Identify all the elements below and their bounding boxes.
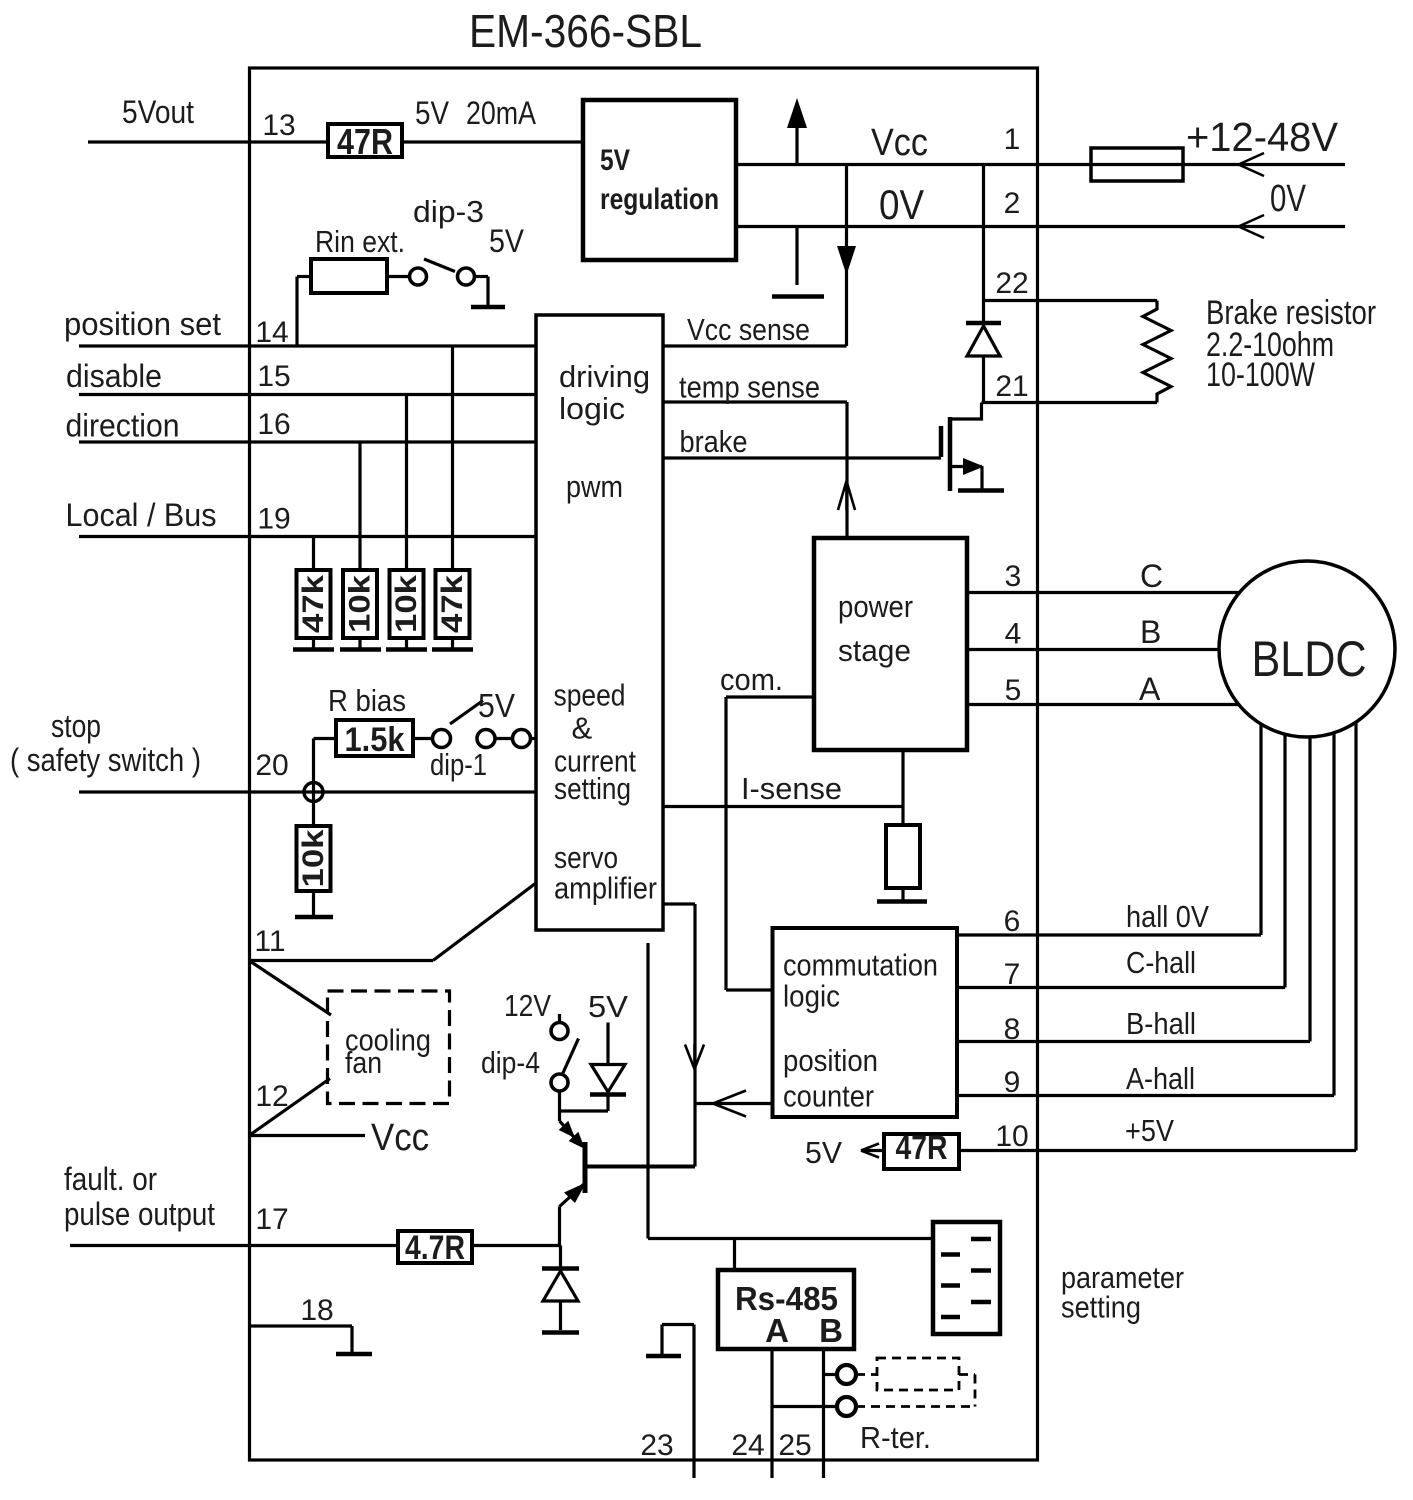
svg-text:10k: 10k [390, 575, 423, 633]
svg-text:position: position [783, 1043, 878, 1078]
svg-text:2: 2 [1004, 187, 1021, 220]
svg-text:speed: speed [554, 678, 626, 713]
svg-text:dip-4: dip-4 [481, 1045, 540, 1080]
svg-text:logic: logic [783, 979, 840, 1014]
svg-text:Rin ext.: Rin ext. [315, 224, 405, 259]
svg-text:10k: 10k [297, 829, 330, 887]
svg-text:15: 15 [257, 360, 290, 393]
svg-text:dip-1: dip-1 [430, 747, 487, 782]
svg-text:5V: 5V [805, 1135, 842, 1170]
svg-text:( safety switch ): ( safety switch ) [10, 742, 201, 778]
svg-text:power: power [838, 589, 913, 624]
svg-text:10-100W: 10-100W [1206, 356, 1315, 394]
svg-text:9: 9 [1004, 1066, 1021, 1099]
svg-text:fan: fan [345, 1045, 382, 1080]
svg-text:logic: logic [559, 391, 625, 426]
svg-text:12V: 12V [504, 988, 551, 1023]
svg-text:fault. or: fault. or [64, 1161, 157, 1197]
svg-text:11: 11 [254, 925, 285, 958]
svg-text:4: 4 [1005, 618, 1022, 651]
svg-text:direction: direction [66, 408, 180, 444]
svg-text:5V: 5V [600, 144, 630, 177]
svg-text:0V: 0V [879, 181, 924, 228]
svg-text:regulation: regulation [600, 183, 719, 216]
svg-text:Vcc: Vcc [871, 122, 928, 164]
svg-text:47k: 47k [297, 575, 330, 633]
svg-text:5V: 5V [415, 95, 450, 131]
svg-text:10k: 10k [344, 575, 377, 633]
svg-text:5Vout: 5Vout [122, 94, 194, 130]
svg-text:13: 13 [262, 109, 295, 142]
svg-text:&: & [572, 711, 593, 746]
svg-text:47R: 47R [896, 1129, 948, 1167]
svg-text:BLDC: BLDC [1252, 631, 1367, 687]
svg-text:driving: driving [559, 359, 650, 394]
svg-text:EM-366-SBL: EM-366-SBL [469, 5, 702, 57]
svg-text:amplifier: amplifier [554, 871, 657, 906]
svg-text:14: 14 [255, 316, 288, 349]
svg-text:temp sense: temp sense [679, 370, 820, 405]
svg-text:47R: 47R [337, 121, 393, 162]
svg-text:10: 10 [995, 1120, 1028, 1153]
svg-text:R-ter.: R-ter. [860, 1420, 931, 1455]
svg-text:5: 5 [1005, 674, 1022, 707]
svg-text:Local / Bus: Local / Bus [66, 497, 217, 533]
svg-text:setting: setting [554, 771, 631, 806]
svg-text:position set: position set [64, 306, 221, 342]
svg-text:Vcc: Vcc [371, 1117, 429, 1159]
svg-text:commutation: commutation [783, 948, 938, 983]
svg-text:0V: 0V [1270, 178, 1307, 220]
svg-text:dip-3: dip-3 [413, 194, 484, 229]
svg-text:C-hall: C-hall [1126, 945, 1196, 980]
svg-text:C: C [1140, 558, 1163, 594]
svg-text:19: 19 [257, 503, 290, 536]
svg-text:brake: brake [680, 424, 748, 459]
svg-text:20mA: 20mA [466, 95, 537, 131]
svg-text:22: 22 [995, 267, 1028, 300]
svg-text:6: 6 [1004, 905, 1021, 938]
svg-text:disable: disable [66, 358, 162, 394]
svg-text:A: A [765, 1312, 789, 1349]
svg-text:17: 17 [255, 1203, 288, 1236]
svg-text:23: 23 [640, 1429, 673, 1462]
svg-text:I-sense: I-sense [741, 771, 842, 806]
svg-text:24: 24 [731, 1429, 764, 1462]
svg-text:25: 25 [778, 1429, 811, 1462]
svg-text:1.5k: 1.5k [345, 721, 405, 759]
svg-text:setting: setting [1061, 1290, 1141, 1325]
svg-text:+12-48V: +12-48V [1186, 114, 1339, 160]
svg-text:8: 8 [1004, 1013, 1021, 1046]
svg-text:A-hall: A-hall [1126, 1061, 1195, 1096]
svg-text:stage: stage [838, 633, 911, 668]
svg-text:18: 18 [300, 1294, 333, 1327]
svg-text:5V: 5V [478, 687, 515, 724]
svg-text:4.7R: 4.7R [405, 1229, 465, 1267]
svg-text:pulse output: pulse output [64, 1196, 215, 1232]
svg-text:47k: 47k [436, 575, 469, 633]
svg-text:pwm: pwm [566, 469, 623, 504]
svg-text:B: B [1140, 614, 1161, 650]
svg-text:A: A [1139, 671, 1161, 707]
svg-text:5V: 5V [588, 989, 628, 1024]
svg-text:hall 0V: hall 0V [1126, 899, 1209, 934]
svg-text:20: 20 [255, 749, 288, 782]
svg-text:B-hall: B-hall [1126, 1006, 1196, 1041]
svg-text:stop: stop [51, 708, 101, 744]
svg-text:16: 16 [257, 408, 290, 441]
svg-text:Vcc sense: Vcc sense [687, 312, 810, 347]
svg-text:5V: 5V [489, 223, 525, 259]
svg-text:B: B [819, 1312, 843, 1349]
svg-text:R bias: R bias [328, 683, 406, 718]
svg-text:counter: counter [783, 1079, 874, 1114]
svg-text:7: 7 [1004, 958, 1021, 991]
svg-text:12: 12 [255, 1080, 288, 1113]
svg-text:+5V: +5V [1125, 1113, 1174, 1148]
svg-text:3: 3 [1005, 560, 1022, 593]
svg-text:com.: com. [720, 662, 783, 697]
svg-text:21: 21 [995, 370, 1028, 403]
svg-text:1: 1 [1004, 123, 1021, 156]
